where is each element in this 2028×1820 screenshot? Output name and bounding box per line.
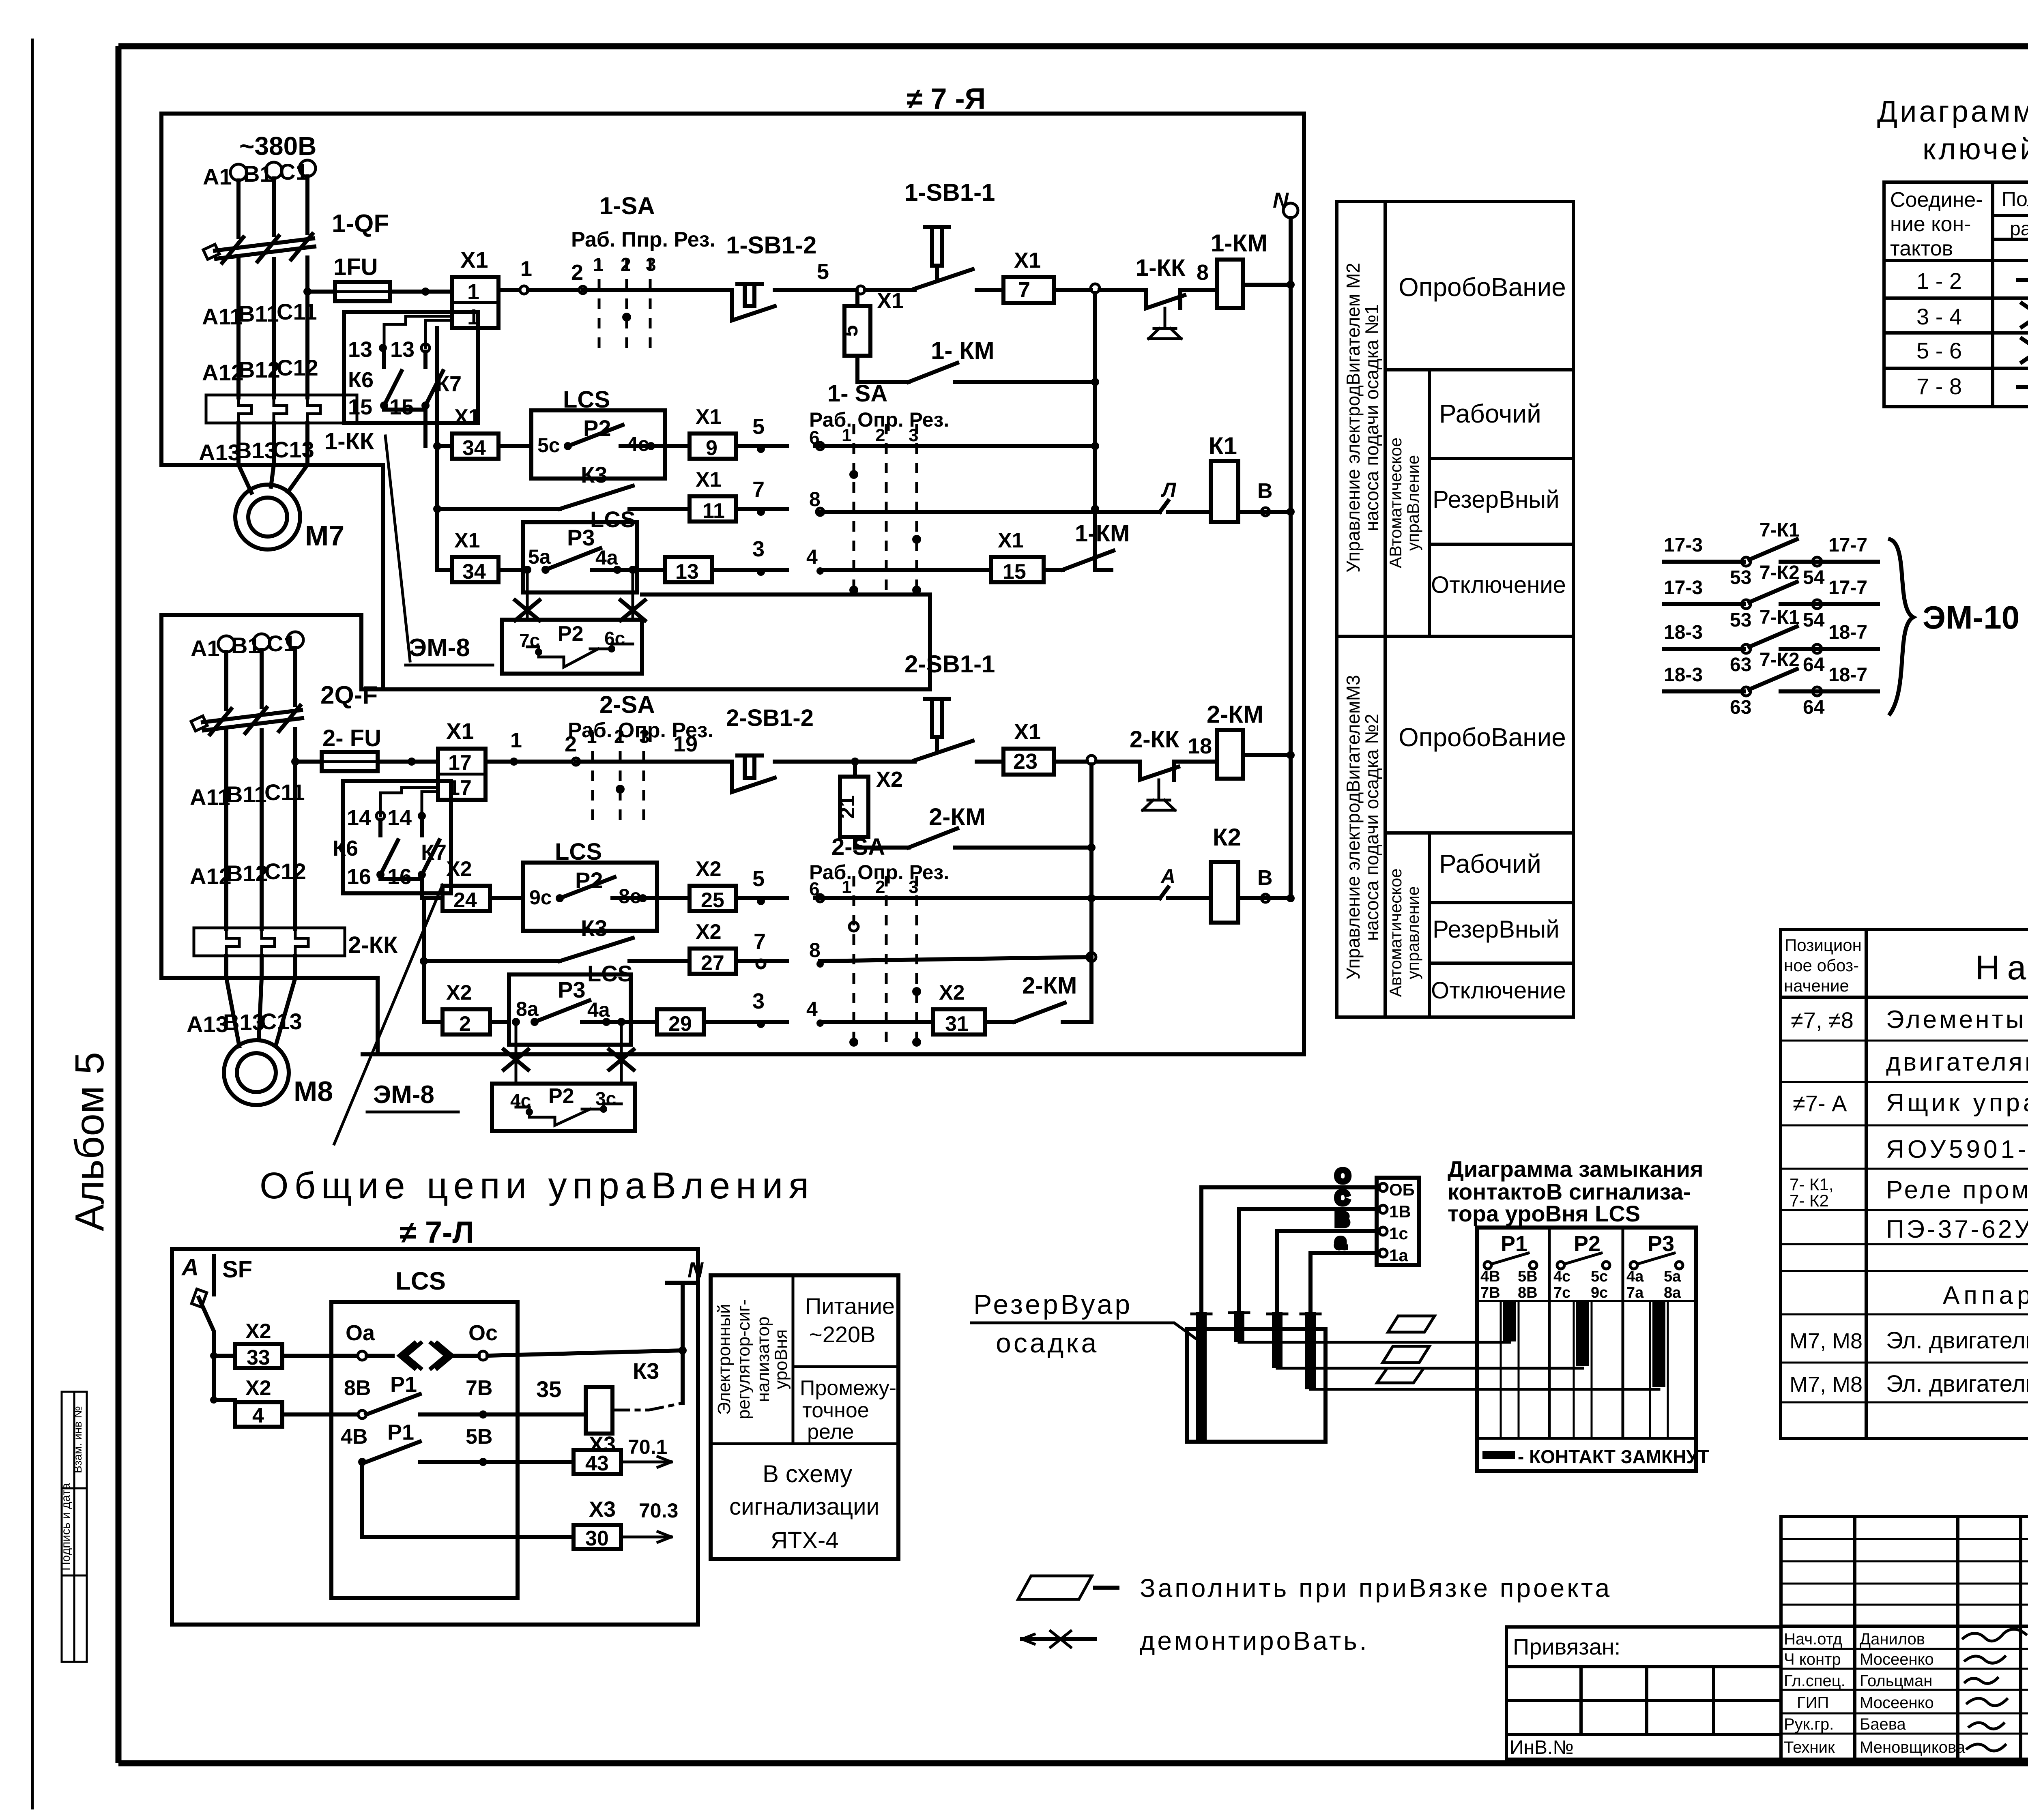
svg-text:14: 14	[387, 806, 412, 830]
row 3 right: node 8 to K1	[809, 479, 1177, 515]
svg-text:Заполнить при приВязке прое: Заполнить при приВязке проекта	[1140, 1573, 1612, 1603]
svg-text:7-К1: 7-К1	[1759, 519, 1800, 541]
svg-text:ное обоз-: ное обоз-	[1784, 956, 1859, 975]
svg-text:тактов: тактов	[1890, 237, 1953, 260]
svg-text:Ч контр: Ч контр	[1784, 1650, 1841, 1668]
svg-text:9с: 9с	[1591, 1284, 1608, 1301]
svg-text:Отключение: Отключение	[1431, 572, 1566, 598]
svg-text:4а: 4а	[595, 546, 619, 569]
terminal X1 11	[690, 468, 787, 523]
svg-text:Техник: Техник	[1784, 1738, 1835, 1756]
svg-text:точное: точное	[802, 1399, 869, 1422]
terminal X2 4	[214, 1376, 357, 1427]
motor M7	[235, 465, 344, 552]
svg-text:Управление электродВигателемМ3: Управление электродВигателемМ3	[1343, 675, 1364, 979]
svg-text:1а: 1а	[1389, 1246, 1408, 1265]
svg-text:Данилов: Данилов	[1860, 1630, 1925, 1648]
svg-text:Х1: Х1	[446, 718, 474, 744]
svg-text:5с: 5с	[537, 434, 560, 457]
row 2 lower: X2 24	[424, 857, 523, 912]
svg-text:54: 54	[1803, 610, 1825, 631]
svg-text:Х1: Х1	[998, 529, 1024, 552]
EM-10 row 18-3 7-К1	[1664, 607, 1878, 676]
svg-text:30: 30	[585, 1527, 609, 1550]
frame bottom	[118, 1760, 2028, 1766]
phase labels A11 B11 C11 lower	[190, 779, 305, 810]
svg-text:РезерВный: РезерВный	[1433, 916, 1560, 943]
svg-text:А1: А1	[191, 635, 220, 661]
svg-text:начение: начение	[1784, 976, 1849, 995]
svg-text:5 - 6: 5 - 6	[1916, 338, 1962, 363]
svg-text:64: 64	[1803, 697, 1825, 718]
svg-text:Х1: Х1	[460, 247, 488, 273]
left control bus upper	[433, 328, 441, 570]
legend parallelogram	[1018, 1573, 1612, 1603]
key contact closure diagram title	[1877, 94, 2028, 166]
svg-text:Реле промежуточное: Реле промежуточное	[1886, 1176, 2028, 1204]
svg-text:≠7- А: ≠7- А	[1793, 1090, 1847, 1116]
reservoir label	[971, 1289, 1195, 1359]
svg-text:7с: 7с	[1553, 1284, 1570, 1301]
svg-text:Рабочий: Рабочий	[1439, 399, 1541, 428]
svg-text:раб.: раб.	[2010, 218, 2028, 240]
frame left	[116, 46, 122, 1763]
svg-text:С12: С12	[264, 858, 306, 884]
selector 2-SA second deck	[809, 834, 949, 1047]
relay contacts K6 K7 box lower	[333, 781, 451, 898]
svg-text:43: 43	[585, 1452, 609, 1475]
svg-text:1-КМ: 1-КМ	[1211, 230, 1267, 257]
junction node lower main	[851, 758, 859, 766]
svg-text:4В: 4В	[341, 1425, 367, 1449]
svg-text:Элементы управления электро-: Элементы управления электро-	[1886, 1006, 2028, 1034]
svg-text:17-7: 17-7	[1828, 534, 1867, 556]
svg-text:А12: А12	[202, 360, 244, 385]
svg-text:Альбом 5: Альбом 5	[67, 1052, 112, 1231]
svg-text:63: 63	[1730, 654, 1751, 676]
svg-text:нализатор: нализатор	[753, 1316, 773, 1402]
aux contact 1-KM (seal-in)	[857, 337, 1099, 386]
svg-text:5В: 5В	[1518, 1268, 1538, 1285]
relay coil K2	[1168, 824, 1295, 923]
svg-text:2: 2	[459, 1012, 471, 1036]
svg-text:1-SB1-2: 1-SB1-2	[726, 232, 816, 259]
terminal X2 21 (vertical)	[836, 766, 903, 837]
svg-text:8В: 8В	[1518, 1284, 1538, 1301]
svg-text:1: 1	[510, 729, 522, 752]
svg-text:- КОНТАКТ ЗАМКНУТ: - КОНТАКТ ЗАМКНУТ	[1518, 1446, 1709, 1467]
svg-text:2-SB1-1: 2-SB1-1	[904, 650, 995, 678]
svg-text:2-КМ: 2-КМ	[929, 803, 986, 831]
sensor diagram title	[1448, 1156, 1704, 1226]
P1 P2 P3 contact state box	[1477, 1228, 1709, 1471]
svg-text:Нач.отд: Нач.отд	[1784, 1630, 1842, 1648]
svg-text:Позицион: Позицион	[1785, 936, 1862, 955]
svg-text:≠ 7-Л: ≠ 7-Л	[400, 1215, 474, 1250]
svg-text:Х2: Х2	[696, 920, 722, 944]
svg-text:4В: 4В	[1480, 1268, 1500, 1285]
spec table rows text	[1790, 1006, 2028, 1397]
svg-text:Гольцман: Гольцман	[1860, 1672, 1932, 1690]
svg-text:С1: С1	[267, 631, 296, 656]
svg-text:Р2: Р2	[1574, 1232, 1600, 1256]
table marks row 5-6	[2022, 339, 2028, 362]
relay coil K3 common	[586, 1358, 683, 1457]
svg-text:1: 1	[842, 877, 851, 897]
svg-text:1-QF: 1-QF	[332, 210, 389, 238]
relay contact K3 row lower	[424, 915, 690, 986]
svg-text:а: а	[1335, 1231, 1346, 1253]
svg-text:Привязан:: Привязан:	[1513, 1634, 1620, 1659]
selector switch 2-SA lower	[568, 691, 713, 822]
svg-text:ОпробоВание: ОпробоВание	[1399, 273, 1566, 302]
EM-10 row 18-3 7-К2	[1664, 649, 1878, 718]
svg-text:13: 13	[348, 337, 372, 362]
svg-text:70.1: 70.1	[628, 1436, 667, 1458]
level switch LCS P2 box upper	[531, 386, 665, 479]
svg-text:≠7, ≠8: ≠7, ≠8	[1791, 1007, 1854, 1033]
mode table (right of schematic)	[1337, 202, 1573, 1017]
svg-text:А11: А11	[190, 784, 230, 810]
svg-text:Рабочий: Рабочий	[1439, 849, 1541, 878]
sensor terminal box	[1377, 1178, 1419, 1265]
svg-text:4а: 4а	[1626, 1268, 1644, 1285]
svg-text:К6: К6	[333, 836, 358, 861]
node 1 upper	[498, 257, 532, 294]
svg-text:Оа: Оа	[346, 1321, 375, 1345]
svg-text:Л: Л	[1161, 479, 1177, 501]
svg-text:23: 23	[1013, 749, 1038, 774]
neutral terminal N	[1273, 188, 1298, 898]
row 2 lower right to K2	[815, 865, 1175, 902]
phase labels A12 B12 C12 lower	[190, 858, 306, 889]
svg-text:5: 5	[752, 867, 765, 891]
neutral N common	[667, 1258, 704, 1403]
fill-in parallelogram marks	[1377, 1316, 1435, 1383]
phase labels A12 B12 C12	[202, 355, 318, 385]
svg-text:17-7: 17-7	[1828, 577, 1867, 599]
sensor wires to tank electrodes	[1201, 1165, 1379, 1325]
electrode output wires	[1239, 1342, 1659, 1389]
frame top	[118, 43, 2028, 49]
row 4 lower right: node 4 X2 31	[806, 972, 1091, 1036]
sludge tank	[1187, 1329, 1326, 1442]
terminal A1 lower	[191, 635, 234, 709]
svg-text:К6: К6	[348, 368, 374, 392]
tank electrodes	[1192, 1311, 1320, 1440]
terminal block X1 17/17	[438, 718, 486, 800]
svg-text:53: 53	[1730, 567, 1751, 588]
svg-text:А13: А13	[187, 1011, 228, 1037]
svg-text:насоса подачи осадка №2: насоса подачи осадка №2	[1361, 714, 1382, 941]
svg-text:Автоматическое: Автоматическое	[1386, 868, 1405, 997]
svg-text:А1: А1	[203, 164, 232, 189]
svg-text:2-SB1-2: 2-SB1-2	[726, 705, 814, 731]
svg-text:≠ 7 -Я: ≠ 7 -Я	[907, 83, 986, 115]
svg-text:7 - 8: 7 - 8	[1916, 373, 1962, 399]
main control row 1 upper	[528, 260, 732, 294]
terminal X1 23	[1003, 720, 1087, 775]
svg-text:С1: С1	[279, 159, 308, 185]
terminal X1 7	[1003, 248, 1091, 303]
svg-text:N: N	[687, 1258, 704, 1282]
svg-text:1- КМ: 1- КМ	[931, 337, 995, 364]
selector switch 1-SA upper	[571, 192, 715, 350]
svg-text:5В: 5В	[466, 1425, 492, 1449]
svg-text:3: 3	[752, 989, 765, 1013]
svg-text:16: 16	[347, 865, 371, 889]
svg-text:64: 64	[1803, 654, 1825, 676]
svg-text:Х2: Х2	[245, 1320, 271, 1343]
mode names	[1399, 273, 1566, 1004]
svg-text:1-КК: 1-КК	[1136, 255, 1186, 281]
lower branch to X3 30	[362, 1462, 678, 1550]
svg-text:Аппаратура по месту: Аппаратура по месту	[1943, 1281, 2028, 1309]
row 2 right to bus	[815, 442, 1095, 450]
svg-text:К1: К1	[1209, 432, 1237, 459]
junction ring bus top lower	[1087, 755, 1096, 764]
svg-text:~380В: ~380В	[239, 131, 316, 161]
svg-text:53: 53	[1730, 610, 1751, 631]
thermal overload 2-KK	[194, 928, 398, 978]
svg-text:Рук.гр.: Рук.гр.	[1784, 1715, 1834, 1733]
svg-text:SF: SF	[222, 1256, 252, 1283]
legend closed contact	[1482, 1451, 1515, 1459]
thermal overload 1-KK	[206, 395, 374, 465]
terminal X3 43	[574, 1436, 671, 1475]
svg-text:70.3: 70.3	[639, 1499, 678, 1522]
svg-text:Ящик управления: Ящик управления	[1886, 1089, 2028, 1117]
terminal C1 lower	[267, 631, 303, 705]
svg-text:Отключение: Отключение	[1431, 977, 1566, 1004]
svg-text:7- К2: 7- К2	[1790, 1191, 1829, 1210]
svg-text:Подпись и дата: Подпись и дата	[59, 1483, 73, 1571]
terminal X2 27	[690, 920, 787, 975]
terminal X1 5 (vertical)	[839, 289, 904, 356]
fuse 1FU	[303, 254, 452, 301]
svg-text:8а: 8а	[1664, 1284, 1681, 1301]
svg-text:тора уроВня LCS: тора уроВня LCS	[1448, 1201, 1640, 1226]
specification table	[1781, 929, 2028, 1438]
svg-text:сигнализации: сигнализации	[729, 1494, 879, 1520]
svg-text:ние кон-: ние кон-	[1890, 212, 1971, 236]
right bus upper	[1091, 293, 1099, 570]
svg-text:7: 7	[1018, 278, 1030, 302]
svg-text:Х1: Х1	[454, 529, 480, 552]
svg-text:Х2: Х2	[446, 981, 472, 1004]
circuit breaker 1-QF	[203, 210, 389, 397]
title block	[1781, 1517, 2028, 1762]
svg-text:7-К1: 7-К1	[1759, 607, 1800, 628]
svg-text:9с: 9с	[529, 886, 552, 909]
svg-text:54: 54	[1803, 567, 1825, 588]
svg-text:15: 15	[1003, 560, 1026, 584]
svg-text:7-К2: 7-К2	[1759, 562, 1800, 584]
svg-text:9: 9	[706, 436, 718, 460]
svg-text:1В: 1В	[1389, 1202, 1411, 1221]
svg-text:18: 18	[1188, 734, 1212, 758]
svg-text:регулятор-сиг-: регулятор-сиг-	[734, 1299, 754, 1419]
node 1 lower	[486, 729, 522, 766]
svg-text:7: 7	[754, 929, 766, 954]
svg-text:13: 13	[675, 560, 699, 584]
svg-text:Р3: Р3	[1648, 1232, 1674, 1256]
svg-text:демонтироВать.: демонтироВать.	[1140, 1626, 1369, 1655]
terminal B1 lower	[231, 633, 270, 707]
phase labels A13 B13 C13 lower	[187, 1009, 302, 1037]
svg-text:Питание: Питание	[805, 1293, 895, 1319]
svg-text:17-3: 17-3	[1664, 577, 1703, 599]
stop button 2-SB1-2	[726, 705, 909, 792]
svg-text:N: N	[1273, 188, 1289, 212]
svg-text:4с: 4с	[1553, 1268, 1570, 1285]
svg-text:1: 1	[467, 280, 479, 304]
EM-8 leader label upper	[385, 436, 493, 665]
svg-text:Х2: Х2	[446, 857, 472, 881]
svg-text:Р1: Р1	[387, 1420, 414, 1444]
svg-text:уроВня: уроВня	[771, 1329, 791, 1389]
svg-text:К3: К3	[581, 915, 607, 941]
svg-text:В11: В11	[238, 301, 279, 326]
svg-text:33: 33	[247, 1346, 270, 1369]
svg-text:Управление электродВигателем: Управление электродВигателем М2	[1343, 263, 1364, 573]
svg-text:М7, М8: М7, М8	[1790, 1372, 1863, 1397]
svg-text:2Q-F: 2Q-F	[320, 681, 378, 709]
svg-text:РезерВный: РезерВный	[1433, 486, 1560, 513]
svg-text:1 - 2: 1 - 2	[1916, 268, 1962, 294]
svg-text:15: 15	[389, 395, 414, 419]
svg-text:31: 31	[945, 1012, 969, 1036]
svg-text:2-КК: 2-КК	[1130, 726, 1179, 753]
svg-text:ЭМ-10: ЭМ-10	[1923, 599, 2019, 635]
left control bus lower	[420, 898, 428, 1022]
closed-contact channel lines	[1501, 1301, 1668, 1438]
svg-text:РезерВуар: РезерВуар	[973, 1289, 1132, 1320]
phase labels A13 B13 C13	[199, 437, 314, 465]
svg-text:Р2: Р2	[558, 622, 584, 646]
svg-text:1-SB1-1: 1-SB1-1	[904, 179, 995, 206]
svg-text:5: 5	[752, 414, 765, 439]
thermal contact 1-KK	[1100, 255, 1209, 339]
contact P1 row 4V 5V	[341, 1420, 574, 1466]
terminal X2 25	[657, 857, 787, 912]
svg-text:В: В	[1335, 1209, 1349, 1231]
contact P1 row 8V 7V	[344, 1372, 586, 1419]
svg-text:ЭМ-8: ЭМ-8	[409, 634, 470, 662]
svg-text:Х1: Х1	[696, 405, 722, 429]
row 2 upper: X1 34	[437, 405, 531, 460]
table marks row 1-2	[2018, 268, 2028, 291]
svg-text:Электронный: Электронный	[714, 1304, 734, 1415]
svg-text:2- FU: 2- FU	[322, 725, 381, 751]
svg-text:К2: К2	[1213, 824, 1241, 851]
brace EM-10	[1890, 539, 1913, 714]
svg-text:7-К2: 7-К2	[1759, 649, 1800, 671]
sheet left trim line	[31, 39, 34, 1809]
svg-text:Х2: Х2	[696, 857, 722, 881]
svg-text:3 - 4: 3 - 4	[1916, 304, 1962, 329]
svg-text:2: 2	[875, 877, 885, 897]
svg-text:5: 5	[817, 260, 829, 284]
stop button 1-SB1-2	[726, 232, 857, 320]
svg-text:29: 29	[668, 1012, 692, 1036]
svg-text:АВтоматическое: АВтоматическое	[1386, 438, 1405, 569]
svg-text:упраВление: упраВление	[1403, 455, 1422, 551]
svg-text:Р3: Р3	[558, 977, 586, 1002]
junction ring node 5	[857, 286, 865, 294]
svg-text:С11: С11	[264, 779, 305, 805]
svg-text:Х1: Х1	[1014, 720, 1041, 744]
svg-text:насоса подачи осадка №1: насоса подачи осадка №1	[1361, 304, 1382, 531]
svg-text:21: 21	[836, 795, 859, 819]
terminal X2 33	[214, 1320, 357, 1369]
svg-text:1: 1	[842, 425, 851, 445]
svg-text:1FU: 1FU	[333, 254, 378, 280]
fuse 2-FU	[291, 725, 438, 771]
table marks row 3-4	[2022, 303, 2028, 327]
svg-text:А11: А11	[202, 304, 243, 329]
svg-text:2-КМ: 2-КМ	[1022, 972, 1077, 999]
start button 1-SB1-1	[865, 179, 1003, 290]
svg-text:Х2: Х2	[876, 767, 903, 792]
svg-text:7: 7	[752, 477, 765, 502]
crossed-out P2 contact box EM-8 lower	[492, 1026, 635, 1131]
start button 2-SB1-1	[904, 650, 1003, 762]
svg-text:Взам. инв №: Взам. инв №	[71, 1406, 84, 1473]
svg-text:М7, М8: М7, М8	[1790, 1329, 1863, 1353]
svg-text:С13: С13	[273, 437, 314, 462]
terminal X1 13	[665, 537, 787, 584]
svg-text:Х1: Х1	[454, 405, 480, 429]
svg-text:5а: 5а	[1664, 1268, 1681, 1285]
relay contact K3 row upper	[437, 462, 690, 532]
svg-text:ПЭ-37-62У3: ПЭ-37-62У3	[1886, 1215, 2028, 1243]
svg-text:Р2: Р2	[548, 1084, 574, 1108]
svg-text:1-КК: 1-КК	[324, 428, 374, 455]
svg-text:Наименование: Наименование	[1975, 949, 2028, 987]
level electrodes row Oa Oc	[346, 1321, 687, 1368]
svg-text:4а: 4а	[587, 998, 610, 1021]
svg-text:8: 8	[809, 939, 821, 962]
svg-text:О: О	[1335, 1165, 1350, 1187]
svg-text:63: 63	[1730, 697, 1751, 718]
svg-text:К3: К3	[581, 462, 607, 487]
signature rows text	[1784, 1630, 1966, 1756]
terminal A1 upper	[203, 164, 247, 237]
terminal B1 upper	[243, 161, 282, 235]
svg-text:Диаграмма замыкания контактов: Диаграмма замыкания контактов	[1877, 94, 2028, 128]
privyazan box	[1506, 1627, 1781, 1759]
svg-text:17: 17	[448, 751, 472, 775]
svg-text:Мосеенко: Мосеенко	[1860, 1650, 1934, 1668]
svg-text:двигателями М7, М8: двигателями М7, М8	[1886, 1048, 2028, 1076]
svg-text:ОпробоВание: ОпробоВание	[1399, 723, 1566, 752]
inner LCS box common	[331, 1267, 518, 1598]
circuit breaker 2Q-F	[191, 681, 378, 929]
svg-text:8В: 8В	[344, 1376, 371, 1400]
svg-text:Х1: Х1	[877, 289, 904, 313]
svg-text:34: 34	[462, 560, 486, 584]
svg-text:В12: В12	[238, 357, 280, 382]
svg-text:Х2: Х2	[245, 1376, 271, 1400]
svg-text:Положение рукоятки: Положение рукоятки	[2002, 188, 2028, 210]
svg-text:С11: С11	[277, 299, 317, 324]
svg-text:7В: 7В	[1480, 1284, 1500, 1301]
svg-text:Эл. двигатель 4А80В4; 1.5кВт: Эл. двигатель 4А80В4; 1.5кВт	[1886, 1327, 2028, 1354]
svg-text:LCS: LCS	[395, 1267, 446, 1295]
svg-text:Х1: Х1	[696, 468, 722, 491]
svg-text:ЭМ-8: ЭМ-8	[373, 1081, 434, 1109]
